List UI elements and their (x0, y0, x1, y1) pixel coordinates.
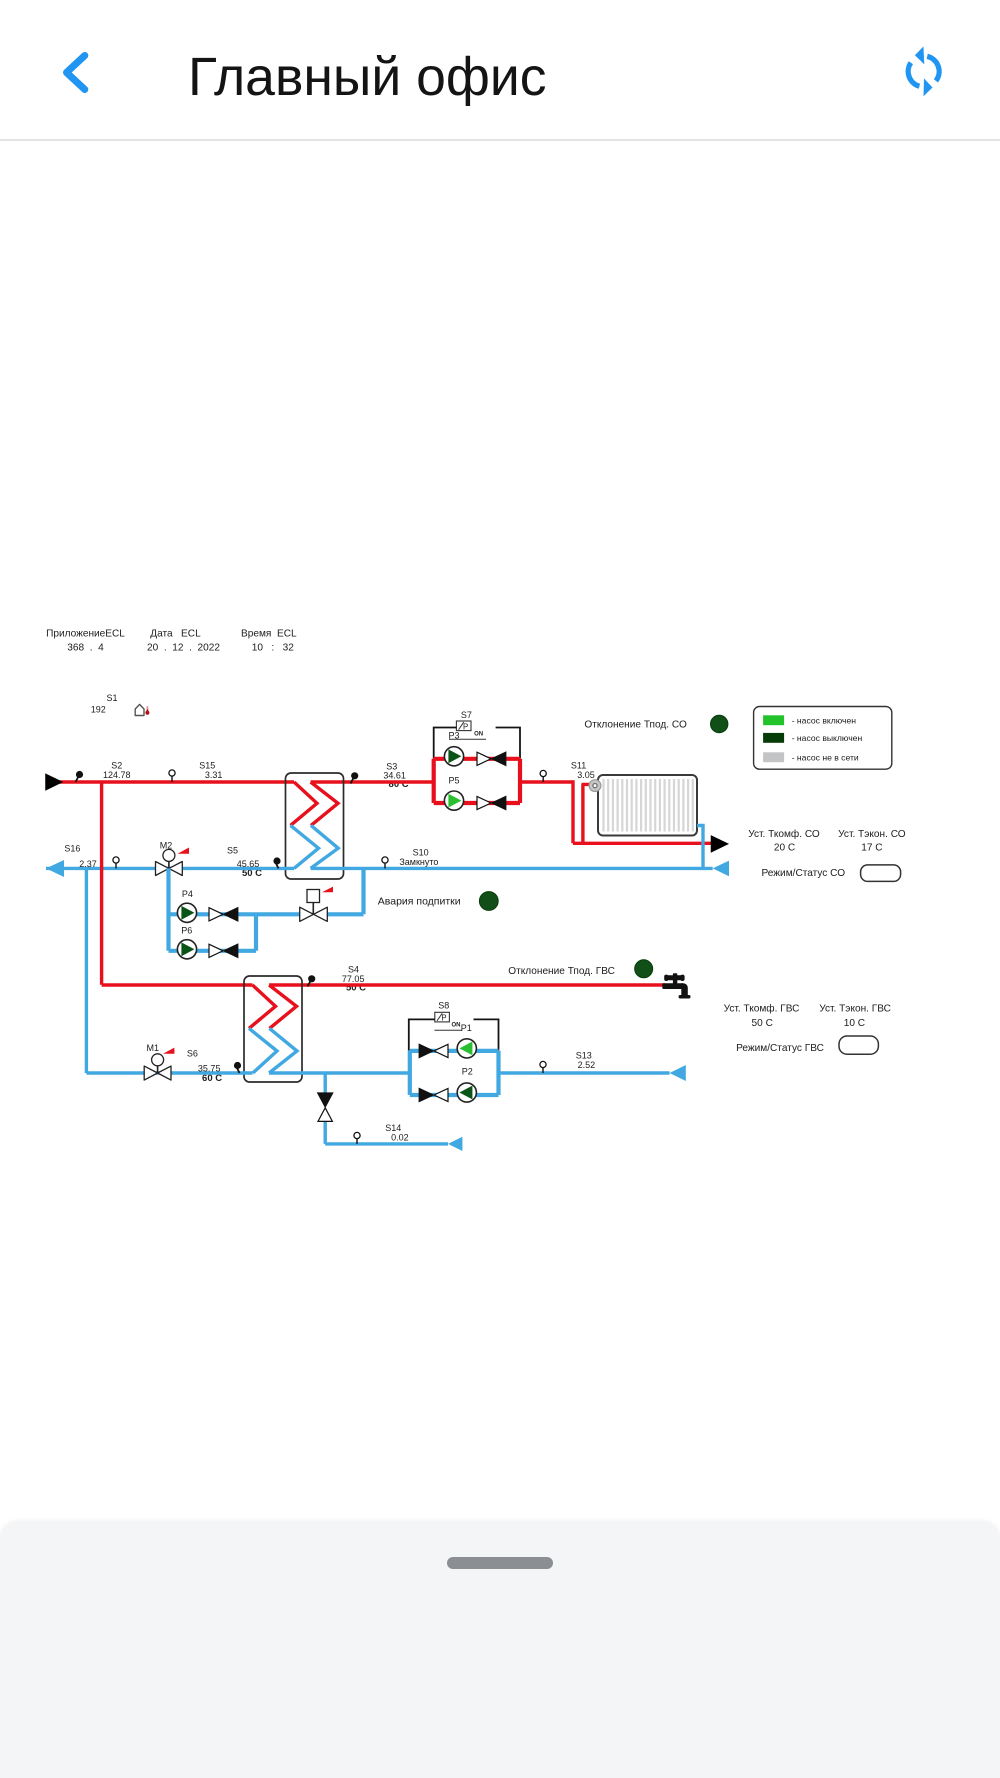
legend: pump offline (763, 752, 859, 762)
DHW setpoint labels (724, 1003, 891, 1054)
svg-text:- насос не в сети: - насос не в сети (792, 753, 859, 763)
svg-text:Режим/Статус ГВС: Режим/Статус ГВС (736, 1043, 824, 1054)
P1 status label (434, 1023, 471, 1034)
sensor S16 (64, 844, 119, 869)
check valve (P1 branch) (419, 1044, 448, 1057)
svg-text:S5: S5 (227, 846, 238, 856)
svg-text:S2: S2 (111, 761, 122, 771)
sensor S13 (540, 1050, 595, 1073)
sensor S1 label (91, 693, 118, 715)
bottom sheet (0, 1522, 1000, 1778)
HX1 blue zigzag (291, 825, 339, 868)
blue riser to DHW mixing valve (85, 868, 88, 1073)
svg-text:35.75: 35.75 (198, 1063, 221, 1073)
red riser to DHW circuit (100, 782, 103, 985)
svg-text:S7: S7 (461, 710, 472, 720)
drag handle (447, 1557, 553, 1569)
svg-text:P4: P4 (182, 889, 193, 899)
radiator valve knob (589, 780, 601, 792)
svg-text:77.05: 77.05 (342, 974, 365, 984)
P3 status label (448, 730, 486, 740)
svg-text:P: P (441, 1014, 446, 1023)
svg-text:124.78: 124.78 (103, 770, 131, 780)
check valve (P4 branch) (209, 908, 238, 921)
svg-text:M1: M1 (147, 1043, 160, 1053)
radiator (598, 775, 697, 836)
red pipe drop to radiator supply (573, 780, 712, 843)
svg-text:S8: S8 (438, 1000, 449, 1010)
svg-text:Режим/Статус СО: Режим/Статус СО (762, 868, 846, 879)
red DHW supply line (102, 983, 665, 986)
svg-text:Дата ECL: Дата ECL (150, 629, 201, 640)
back chevron button (55, 44, 100, 101)
svg-text:ON: ON (452, 1023, 461, 1029)
svg-text:S15: S15 (199, 761, 215, 771)
HX2 red zigzag (249, 985, 297, 1028)
supply inlet arrow (46, 775, 62, 790)
motor valve M2 (156, 840, 190, 875)
svg-text:ПриложениеECL: ПриложениеECL (46, 629, 125, 640)
sensor S14 (354, 1123, 409, 1144)
svg-text:ON: ON (474, 731, 483, 737)
svg-text:34.61: 34.61 (383, 770, 406, 780)
drain branch piping (325, 1073, 448, 1144)
svg-text:368 . 4: 368 . 4 (67, 643, 104, 654)
svg-text:50 С: 50 С (752, 1018, 773, 1029)
CO mode status box (861, 865, 901, 882)
svg-text:Замкнуто: Замкнуто (399, 857, 438, 867)
sensor S6 probe (immersion) (234, 1062, 241, 1073)
legend: pump off (763, 733, 862, 743)
svg-text:P1: P1 (461, 1023, 472, 1033)
pressure switch S7 (456, 710, 472, 731)
svg-text:P2: P2 (462, 1066, 473, 1076)
temperature setpoint values (rendered behind pipes) (202, 779, 409, 1084)
blue DHW line (86, 1071, 669, 1074)
svg-text:0.02: 0.02 (391, 1132, 409, 1142)
sensor S5 (immersion) (227, 846, 281, 869)
svg-text:3.31: 3.31 (205, 770, 223, 780)
CO deviation indicator (711, 715, 728, 732)
svg-text:2.37: 2.37 (79, 859, 97, 869)
pump P3 (off, dark green) (444, 747, 463, 766)
svg-text:P6: P6 (181, 925, 192, 935)
svg-text:20 . 12 . 2022: 20 . 12 . 2022 (147, 643, 220, 654)
app top bar (0, 0, 1000, 141)
pump P1 (on, bright green) (457, 1039, 476, 1058)
CO pump group loop piping (434, 759, 520, 803)
check valve (P3 branch) (477, 752, 506, 765)
HX1 red zigzag (291, 782, 339, 825)
sensor S11 (540, 760, 595, 782)
sensor S6 labels (187, 1049, 221, 1074)
svg-text:- насос выключен: - насос выключен (792, 733, 863, 743)
make-up alarm indicator (479, 892, 498, 911)
svg-text:10 : 32: 10 : 32 (252, 643, 294, 654)
refresh / sync icon (898, 40, 950, 104)
DHW deviation indicator (635, 960, 653, 978)
drain arrow (448, 1137, 462, 1151)
return outlet arrow (left) (46, 860, 64, 877)
legend: pump on (763, 715, 856, 725)
sensor S10 (382, 847, 439, 868)
HX2 blue zigzag (249, 1028, 297, 1073)
svg-text:S10: S10 (413, 847, 429, 857)
heat exchanger HX2 body (244, 976, 302, 1082)
svg-text:Уст. Тэкон. СО: Уст. Тэкон. СО (838, 829, 906, 840)
heat exchanger HX1 body (286, 773, 344, 879)
blue return from radiator (697, 826, 703, 869)
svg-text:S16: S16 (64, 844, 80, 854)
blue return main line (CO) (46, 867, 713, 870)
svg-text:Уст. Тэкон. ГВС: Уст. Тэкон. ГВС (819, 1004, 891, 1015)
make-up water loop piping (169, 868, 364, 950)
svg-text:3.05: 3.05 (577, 770, 595, 780)
pump P6 (off, dark green) (177, 940, 196, 959)
sensor S3 (immersion, after HX1) (351, 761, 406, 783)
svg-text:S14: S14 (385, 1123, 401, 1133)
pump P2 (off, dark green) (457, 1083, 476, 1102)
supply outlet arrow (to system) (712, 836, 728, 851)
sensor S4 (immersion) (308, 965, 365, 987)
legend box (754, 707, 892, 770)
sensor S2 (immersion) (76, 761, 131, 782)
check valve (P5 branch) (477, 796, 506, 809)
svg-text:P: P (463, 722, 468, 731)
svg-text:Отклонение Тпод. СО: Отклонение Тпод. СО (584, 720, 687, 731)
check valve (P2 branch) (419, 1088, 448, 1101)
return inlet arrow (right) (713, 861, 729, 877)
svg-text:Уст. Ткомф. СО: Уст. Ткомф. СО (748, 828, 820, 840)
motor valve M1 (144, 1043, 174, 1080)
svg-text:P5: P5 (448, 775, 459, 785)
svg-text:192: 192 (91, 705, 106, 715)
svg-text:17 С: 17 С (861, 842, 882, 853)
svg-text:S6: S6 (187, 1049, 198, 1059)
pressure switch S8 (435, 1000, 450, 1022)
svg-text:- насос включен: - насос включен (792, 716, 857, 726)
svg-text:Отклонение Тпод. ГВС: Отклонение Тпод. ГВС (508, 966, 615, 977)
red supply main line (CO) (46, 780, 573, 783)
svg-text:S13: S13 (576, 1050, 592, 1060)
svg-text:20 С: 20 С (774, 842, 795, 853)
check valve (P6 branch) (209, 944, 238, 957)
S1 outside-temperature house icon (135, 704, 149, 715)
svg-text:2.52: 2.52 (578, 1060, 596, 1070)
DHW return arrow (right) (670, 1065, 686, 1081)
svg-text:Время ECL: Время ECL (241, 629, 297, 640)
DHW pump group loop piping (410, 1051, 499, 1095)
S7 control wiring (434, 728, 520, 759)
svg-text:10 С: 10 С (844, 1018, 865, 1029)
title (188, 47, 547, 108)
DHW mode status box (839, 1036, 878, 1054)
faucet icon (662, 973, 690, 998)
pump P4 (off, dark green) (177, 903, 196, 922)
ECL application header text (46, 629, 297, 654)
svg-text:M2: M2 (160, 840, 173, 850)
S8 control wiring (409, 1019, 499, 1050)
drain check valve (vertical) (318, 1093, 333, 1121)
pump P5 (on, bright green) (444, 791, 463, 810)
svg-text:Уст. Ткомф. ГВС: Уст. Ткомф. ГВС (724, 1003, 800, 1015)
svg-text:45.65: 45.65 (237, 859, 260, 869)
svg-text:S1: S1 (106, 693, 117, 703)
make-up solenoid valve (300, 887, 333, 922)
svg-text:S11: S11 (571, 760, 586, 770)
CO setpoint labels (748, 828, 906, 879)
svg-text:Авария подпитки: Авария подпитки (378, 895, 461, 907)
sensor S15 (169, 761, 222, 782)
